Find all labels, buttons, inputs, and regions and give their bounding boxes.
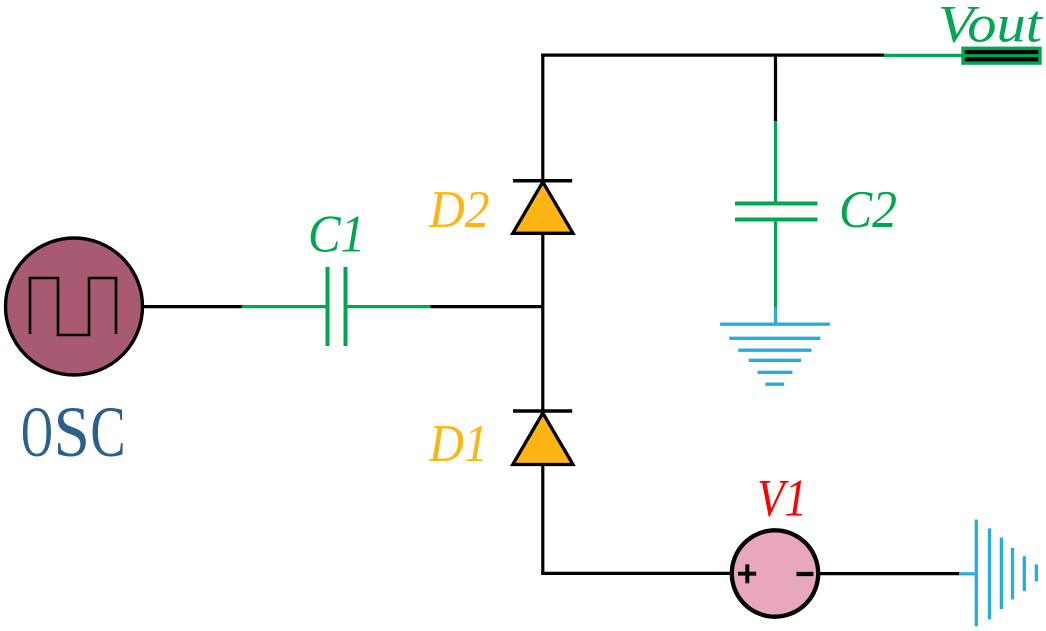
wire C1 to node A (black) [431, 305, 544, 308]
svg-text:V1: V1 [757, 470, 807, 528]
svg-text:D1: D1 [428, 415, 488, 473]
node A vertical wire down to D1 cathode [541, 307, 544, 411]
wire D1 anode down to bottom corner [541, 465, 544, 574]
capacitor C1 left plate [326, 267, 330, 346]
node A vertical wire up to D1 anode [541, 232, 544, 307]
svg-text:Vout: Vout [938, 0, 1043, 54]
node B vertical wire (black) [774, 55, 777, 121]
wire C2 to ground (green) [774, 222, 777, 308]
Vout port mid line [963, 54, 1040, 57]
Vout port box [963, 48, 1040, 63]
oscillator OSC1 square-wave glyph [30, 278, 116, 335]
V1 minus sign [797, 572, 814, 576]
label OSC [21, 392, 125, 472]
svg-text:C2: C2 [839, 181, 897, 239]
diode D2 cathode bar [513, 179, 572, 183]
wire into C1 left (green) [242, 305, 326, 308]
wire D2 cathode up to top rail [541, 54, 544, 181]
wire OSC to C1 (black) [144, 305, 242, 308]
diode D2 triangle [513, 182, 573, 233]
bottom wire to V1 (black) [541, 572, 731, 575]
top rail wire (black) [541, 53, 884, 56]
wire into C2 top (green) [774, 121, 777, 202]
capacitor C2 bottom plate [735, 218, 818, 222]
top rail wire to Vout port (green) [884, 54, 963, 57]
ground under C2 [720, 324, 830, 384]
V1 plus sign [738, 564, 756, 583]
oscillator OSC1 body [6, 238, 143, 375]
diode D1 triangle [513, 413, 573, 465]
diode D1 cathode bar [513, 409, 572, 413]
capacitor C2 top plate [735, 202, 818, 206]
voltage source V1 body [732, 530, 818, 616]
svg-text:C1: C1 [308, 206, 365, 264]
svg-text:D2: D2 [428, 181, 489, 239]
ground stub under C2 (blue) [774, 307, 777, 323]
capacitor C1 right plate [344, 267, 348, 346]
wire V1 to right ground (black) [818, 572, 959, 575]
right ground stub (blue) [959, 572, 975, 575]
right ground [976, 520, 1036, 627]
svg-text:O: O [21, 392, 53, 472]
svg-text:S: S [54, 392, 90, 472]
svg-text:C: C [90, 392, 125, 472]
wire out of C1 right (green) [348, 305, 431, 308]
